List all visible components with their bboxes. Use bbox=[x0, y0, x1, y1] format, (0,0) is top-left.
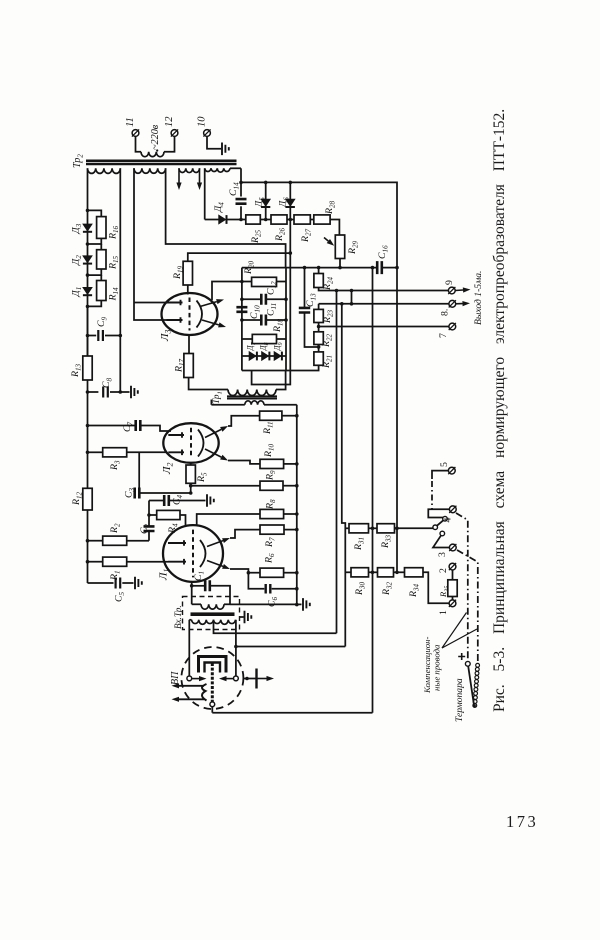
label C11 bbox=[266, 303, 279, 316]
svg-text:Термопара: Термопара bbox=[454, 678, 465, 722]
label terminal 11 bbox=[125, 117, 136, 127]
label Tr1 bbox=[211, 391, 224, 404]
label C5 bbox=[114, 591, 127, 602]
left main bus bbox=[87, 210, 89, 356]
label D1 bbox=[70, 287, 83, 298]
label C9 bbox=[96, 316, 109, 327]
terminal 7 bbox=[449, 323, 456, 330]
ground at terminal 10 bbox=[222, 143, 229, 156]
capacitor C9 bbox=[98, 330, 103, 341]
wire C9 right bbox=[105, 335, 120, 337]
svg-text:С5: С5 bbox=[114, 591, 127, 602]
label R28 bbox=[324, 200, 337, 215]
resistor R22 bbox=[314, 332, 323, 345]
resistor R6 bbox=[260, 568, 284, 577]
label R8 bbox=[265, 499, 278, 510]
svg-text:Тр2: Тр2 bbox=[72, 154, 85, 168]
R3 grid row bbox=[86, 451, 90, 455]
resistor R5 bbox=[186, 465, 195, 483]
svg-text:Компенсацион-: Компенсацион- bbox=[422, 637, 432, 694]
wire W1 left drop / left bus top bbox=[87, 168, 89, 210]
svg-text:R25: R25 bbox=[250, 229, 263, 244]
label R12 bbox=[71, 491, 84, 506]
wire C4 row up-down link bbox=[148, 501, 150, 527]
svg-text:R1: R1 bbox=[109, 570, 122, 581]
transformer Tr2 core bbox=[86, 160, 237, 163]
triode L1 bbox=[163, 525, 223, 582]
R1 row bbox=[86, 560, 90, 564]
svg-text:Д1: Д1 bbox=[70, 287, 83, 298]
thermocouple tip bbox=[473, 704, 476, 707]
resistor R18 bbox=[252, 334, 276, 343]
svg-text:R33: R33 bbox=[380, 534, 393, 549]
svg-text:С2: С2 bbox=[139, 523, 152, 534]
label D7 bbox=[246, 341, 258, 351]
right ladder bus bbox=[296, 405, 298, 605]
label C12 bbox=[266, 281, 279, 295]
resistor R28 bbox=[314, 215, 330, 224]
resistor R4 row bbox=[149, 514, 157, 516]
svg-text:С4: С4 bbox=[172, 494, 185, 505]
switch lever bbox=[437, 520, 444, 526]
diode D4 bbox=[205, 219, 219, 221]
resistor R4 bbox=[157, 510, 180, 519]
label 5 bbox=[439, 462, 450, 467]
label C1 bbox=[193, 571, 206, 581]
label Vkh.Tr bbox=[173, 605, 183, 629]
terminal 12 bbox=[171, 130, 178, 137]
resistor R10 row bbox=[228, 461, 260, 464]
resistor R21 bbox=[314, 352, 323, 365]
output line 8 bbox=[319, 303, 449, 305]
plus sign bbox=[458, 653, 465, 660]
Vkh.Tr primary right half bbox=[214, 620, 236, 624]
wire W2 right drop to feedback box bbox=[166, 168, 286, 267]
diode D2 bbox=[83, 256, 92, 263]
jumper between line 9 and 8 bbox=[351, 291, 353, 304]
svg-text:R29: R29 bbox=[347, 240, 360, 255]
resistor R12 bbox=[83, 488, 92, 510]
capacitor C14 bbox=[236, 199, 247, 204]
wire R34 to terminal 1 bbox=[423, 572, 449, 603]
svg-text:3: 3 bbox=[437, 552, 448, 557]
svg-text:Д2: Д2 bbox=[70, 255, 83, 266]
row R31/R33 bbox=[345, 527, 349, 529]
label 8 bbox=[440, 309, 451, 316]
terminal 3 wiring bbox=[433, 535, 449, 547]
terminal 10 bbox=[204, 130, 211, 137]
C7 grid row of L2 bbox=[86, 424, 90, 428]
label C6 bbox=[267, 596, 280, 607]
wire heater stub to L3 bbox=[134, 302, 167, 304]
capacitor C13 branch bbox=[304, 268, 306, 307]
compensation wire from terminal 4 bbox=[456, 513, 468, 661]
label VP bbox=[170, 671, 181, 685]
terminal 8 bbox=[449, 300, 456, 307]
capacitor C1 row bbox=[192, 585, 206, 587]
svg-text:Л1: Л1 bbox=[158, 569, 172, 581]
resistor R13 bbox=[83, 356, 92, 380]
diode D6 branch bbox=[289, 181, 293, 185]
svg-text:С9: С9 bbox=[96, 316, 109, 327]
diode row D7 D8 D9 bbox=[242, 355, 286, 357]
svg-text:173: 173 bbox=[506, 812, 538, 831]
diode D6 bbox=[286, 199, 295, 206]
label 2 bbox=[438, 568, 449, 573]
svg-text:R16: R16 bbox=[108, 225, 121, 240]
diode D1 bbox=[83, 287, 92, 294]
row R30/R32/R34 bbox=[345, 571, 351, 573]
dash-dot link 5-4 bbox=[431, 481, 433, 509]
label R34 bbox=[408, 583, 421, 598]
svg-text:Выход 1-5ма.: Выход 1-5ма. bbox=[473, 271, 484, 325]
resistor R31 bbox=[349, 524, 369, 533]
capacitor C12 row bbox=[242, 298, 261, 300]
capacitor C16 bbox=[377, 261, 382, 274]
label D4 bbox=[213, 202, 226, 213]
Tr2 winding W4 (anode rectifier) bbox=[205, 168, 230, 172]
L1 anode arrow lower bbox=[207, 561, 223, 567]
L2 anode arrow lower bbox=[205, 449, 221, 457]
Vkh.Tr primary left half bbox=[192, 620, 214, 624]
feedback box left rail bbox=[241, 268, 243, 371]
svg-text:С10: С10 bbox=[249, 305, 262, 319]
svg-text:R31: R31 bbox=[353, 537, 366, 551]
Tr2 winding W3 (heater, arrows) bbox=[179, 168, 200, 172]
label output 1-5mA bbox=[473, 271, 484, 325]
label R25 bbox=[250, 229, 263, 244]
wire R21 bottom / box bottom rail bbox=[242, 365, 319, 370]
Vkh.Tr core bbox=[191, 612, 235, 616]
resistor R27 bbox=[294, 215, 310, 224]
label R7 bbox=[264, 537, 277, 548]
label R20 bbox=[243, 260, 256, 275]
capacitor C3 bbox=[135, 488, 140, 499]
resistor R35 bbox=[452, 597, 454, 600]
svg-text:R34: R34 bbox=[408, 583, 421, 598]
label R6 bbox=[264, 553, 277, 564]
wire primary left end to chopper contact bbox=[188, 620, 190, 676]
label R31 bbox=[353, 537, 366, 551]
label compensation line1 bbox=[422, 637, 432, 694]
left bus between C9 and R13 bbox=[87, 306, 89, 356]
resistor R3 bbox=[103, 448, 127, 457]
Tr1 core bbox=[227, 395, 277, 397]
wire R19 bottom to grid cap of L3 bbox=[187, 285, 189, 295]
label terminal 10 bbox=[197, 116, 208, 127]
svg-text:R15: R15 bbox=[108, 255, 121, 270]
capacitor C11 bbox=[261, 315, 266, 326]
label C16 bbox=[377, 245, 390, 259]
svg-text:Д4: Д4 bbox=[213, 202, 226, 213]
wire primary right end to chopper contact bbox=[235, 620, 237, 676]
left contact arrow bbox=[192, 678, 199, 680]
label R5 bbox=[196, 472, 209, 483]
diode D8 bbox=[262, 352, 269, 361]
wire terminal 11 to Tr2 primary bbox=[136, 136, 142, 151]
resistor R20 row bbox=[242, 281, 252, 283]
capacitor C2 bbox=[144, 526, 155, 531]
terminal 5 bbox=[448, 467, 455, 474]
wire primary centre tap to feedback line bbox=[214, 620, 337, 633]
svg-text:R28: R28 bbox=[324, 200, 337, 215]
ground at C5 bbox=[135, 577, 142, 590]
wire W1 right drop (right mini-bus) bbox=[119, 168, 121, 392]
R29 wiper arrow bbox=[324, 238, 328, 242]
ground at C8 bbox=[131, 386, 138, 399]
svg-text:Д7: Д7 bbox=[246, 341, 258, 351]
bar and arrow right of chopper bbox=[244, 678, 257, 680]
input transformer shield box bbox=[183, 597, 240, 630]
ground at ladder bottom bbox=[297, 603, 302, 605]
wire Tr2 primary to terminal 12 bbox=[164, 136, 175, 151]
capacitor C6 bbox=[266, 584, 271, 594]
switch contacts bbox=[433, 525, 438, 530]
label R16 bbox=[108, 225, 121, 240]
label thermocouple bbox=[454, 678, 465, 722]
ground at C4 bbox=[207, 494, 214, 507]
svg-text:Л2: Л2 bbox=[161, 463, 175, 475]
resistor R34 bbox=[405, 568, 424, 577]
chopper right contact bbox=[234, 676, 239, 681]
chopper reed bbox=[211, 663, 214, 702]
label L1 bbox=[158, 569, 172, 581]
svg-text:8.: 8. bbox=[440, 309, 451, 316]
svg-text:R10: R10 bbox=[263, 443, 276, 458]
wire R3 down to C3 bbox=[138, 452, 140, 487]
svg-text:R7: R7 bbox=[264, 537, 277, 548]
label C2 bbox=[139, 523, 152, 534]
label R27 bbox=[300, 228, 313, 243]
label R17 bbox=[174, 358, 187, 373]
terminal 4 wiring bbox=[428, 509, 449, 517]
capacitor C6 parallel branch bbox=[248, 573, 264, 589]
label R32 bbox=[381, 581, 394, 596]
svg-text:R3: R3 bbox=[109, 460, 122, 471]
thermocouple left prong bbox=[468, 666, 474, 704]
resistor R17 bbox=[184, 354, 193, 378]
terminal 3 bbox=[449, 544, 456, 551]
svg-text:Тр1: Тр1 bbox=[211, 391, 224, 404]
resistor R32 bbox=[378, 568, 394, 577]
Tr1 secondary bbox=[211, 404, 244, 406]
svg-text:11: 11 bbox=[125, 117, 136, 127]
wire terminal 10 to ground bbox=[207, 136, 221, 148]
label R30 bbox=[354, 581, 367, 596]
triode L3 bbox=[162, 293, 218, 335]
resistor R25 bbox=[246, 215, 260, 224]
C8 row bbox=[86, 390, 90, 394]
output line 9 bbox=[319, 288, 449, 291]
wire input transformer top to bus bbox=[230, 603, 297, 605]
label D6 bbox=[278, 197, 291, 208]
wire right contact to divider bracket bbox=[236, 646, 345, 648]
output arrow 8 bbox=[456, 303, 463, 305]
label compensation line2 bbox=[432, 644, 442, 691]
resistor R30 bbox=[351, 568, 369, 577]
svg-text:R17: R17 bbox=[174, 358, 187, 373]
line V2 to divider bracket bbox=[342, 304, 346, 647]
rung 4 bbox=[88, 301, 102, 307]
svg-text:R8: R8 bbox=[265, 499, 278, 510]
resistor R8 row bbox=[197, 514, 260, 526]
label L3 bbox=[159, 330, 173, 342]
svg-text:~220в: ~220в bbox=[150, 124, 161, 150]
label R11 bbox=[262, 421, 275, 435]
label 1 bbox=[438, 610, 449, 615]
resistor R7 bbox=[260, 525, 284, 534]
label R15 bbox=[108, 255, 121, 270]
svg-text:R13: R13 bbox=[70, 363, 83, 378]
chopper left contact bbox=[187, 676, 192, 681]
terminal 2 bbox=[452, 577, 454, 580]
label D9 bbox=[273, 342, 285, 351]
resistor R23 bbox=[318, 304, 320, 310]
resistor R14 bbox=[97, 281, 106, 301]
L2 anode arrow upper bbox=[205, 429, 221, 437]
chopper core bbox=[199, 657, 227, 673]
svg-text:R6: R6 bbox=[264, 553, 277, 564]
svg-text:R12: R12 bbox=[71, 491, 84, 506]
svg-text:С14: С14 bbox=[228, 182, 241, 196]
resistor R6 row bbox=[230, 569, 248, 573]
label D2 bbox=[70, 255, 83, 266]
resistor R18 row bbox=[242, 338, 252, 340]
diode D5 branch bbox=[264, 181, 268, 185]
resistor R19 bbox=[183, 261, 192, 285]
wire left bus R12 to C5 bbox=[87, 510, 89, 583]
Vkh.Tr secondary bbox=[192, 603, 201, 605]
Tr2 winding W1 (rectifier D1-D3) bbox=[88, 168, 121, 173]
resistor R2 bbox=[103, 536, 127, 545]
wire W4 stub bbox=[230, 167, 241, 169]
wire L2 cathode to R5 bbox=[190, 463, 192, 465]
thermocouple right prong (hatched) bbox=[476, 663, 480, 667]
label D3 bbox=[70, 223, 83, 234]
diode D9 bbox=[274, 352, 281, 361]
svg-text:Рис. 5-3. Принципиальная схема: Рис. 5-3. Принципиальная схема нормирующ… bbox=[491, 109, 508, 712]
terminal 1 bbox=[449, 600, 456, 607]
svg-text:Вх.Тр.: Вх.Тр. bbox=[173, 605, 183, 629]
label R1 bbox=[109, 570, 122, 581]
resistor R9 bbox=[260, 481, 283, 490]
wire R29 bottom to rail bbox=[339, 259, 341, 268]
label R19 bbox=[172, 265, 185, 280]
capacitor C7 bbox=[136, 420, 141, 431]
raw DC rail y=182 bbox=[241, 182, 397, 267]
terminal 4 bbox=[449, 506, 456, 513]
right contact arrow bbox=[227, 678, 234, 680]
label R14 bbox=[108, 287, 121, 302]
Vkh.Tr secondary winding bbox=[201, 604, 224, 609]
svg-text:С8: С8 bbox=[101, 377, 114, 388]
output line 7 bbox=[319, 326, 449, 328]
terminal 9 bbox=[448, 287, 455, 294]
resistor R33 bbox=[377, 524, 395, 533]
rung 2 bbox=[88, 238, 102, 244]
label R22 bbox=[321, 333, 334, 348]
label L2 bbox=[161, 463, 175, 475]
capacitor C5 bbox=[116, 578, 121, 589]
resistor R1 bbox=[103, 557, 127, 566]
svg-text:R32: R32 bbox=[381, 581, 394, 596]
Tr1 primary winding bbox=[228, 390, 276, 396]
label R35 bbox=[438, 586, 451, 598]
svg-text:R11: R11 bbox=[262, 421, 275, 435]
resistor R26 bbox=[271, 215, 287, 224]
resistor R16 bbox=[97, 217, 106, 239]
label R10 bbox=[263, 443, 276, 458]
svg-text:ВП: ВП bbox=[170, 671, 181, 685]
ground right of C6 bbox=[303, 598, 310, 611]
svg-text:4: 4 bbox=[443, 518, 454, 523]
label D5 bbox=[254, 197, 267, 208]
resistor R8 bbox=[260, 509, 284, 518]
rail 267 (B+ to output box) bbox=[242, 267, 377, 269]
L3 anode arrow upper bbox=[200, 302, 217, 307]
svg-text:С13: С13 bbox=[305, 293, 318, 307]
resistor R10 bbox=[260, 459, 284, 468]
rung 1 bbox=[88, 210, 102, 216]
capacitor C11 row bbox=[242, 319, 261, 321]
line V3 rail to chopper bbox=[372, 268, 374, 713]
resistor R9 row bbox=[191, 485, 260, 487]
svg-text:7: 7 bbox=[438, 333, 449, 338]
wire R19 top to D6 node bbox=[188, 253, 290, 261]
label ~220v bbox=[150, 124, 161, 150]
svg-text:С3: С3 bbox=[124, 487, 137, 498]
wire W4 left drop bbox=[204, 168, 206, 219]
svg-text:R14: R14 bbox=[108, 287, 121, 302]
label terminal 12 bbox=[164, 116, 175, 127]
wire chopper reed to bus bbox=[212, 712, 372, 714]
rung 3 bbox=[88, 269, 102, 275]
terminal 5 wiring bbox=[432, 471, 448, 479]
label 3 bbox=[437, 552, 448, 557]
triode L2 bbox=[163, 423, 218, 463]
Vkh.Tr primary bbox=[189, 619, 191, 621]
wire L3 cathode to R17 bbox=[188, 335, 190, 354]
chopper dashed circle bbox=[181, 647, 243, 709]
capacitor C8 bbox=[103, 387, 108, 398]
wire R5 bottom bbox=[190, 483, 192, 493]
svg-text:R19: R19 bbox=[172, 265, 185, 280]
label R26 bbox=[274, 227, 287, 242]
svg-text:5: 5 bbox=[439, 462, 450, 467]
feedback line V1 to input transformer bbox=[336, 291, 338, 634]
C5 row bbox=[88, 582, 114, 584]
label C7 bbox=[122, 421, 135, 432]
diode D5 bbox=[261, 199, 270, 206]
Tr2 primary winding bbox=[141, 152, 164, 157]
svg-text:Д6: Д6 bbox=[278, 197, 291, 208]
svg-text:R26: R26 bbox=[274, 227, 287, 242]
label C14 bbox=[228, 182, 241, 196]
R2 row bbox=[86, 539, 90, 543]
capacitor C10 (in left rail) bbox=[236, 307, 247, 312]
label 9 bbox=[444, 280, 455, 285]
label R21 bbox=[321, 355, 334, 369]
label R4 bbox=[167, 523, 180, 534]
Tr1 secondary winding bbox=[245, 401, 264, 405]
svg-text:12: 12 bbox=[164, 116, 175, 127]
svg-text:С6: С6 bbox=[267, 596, 280, 607]
svg-text:10: 10 bbox=[197, 116, 208, 127]
line V4 raw rail down to matrix bbox=[396, 268, 398, 573]
label R33 bbox=[380, 534, 393, 549]
resistor R11 bbox=[260, 411, 282, 420]
label D8 bbox=[259, 342, 271, 351]
